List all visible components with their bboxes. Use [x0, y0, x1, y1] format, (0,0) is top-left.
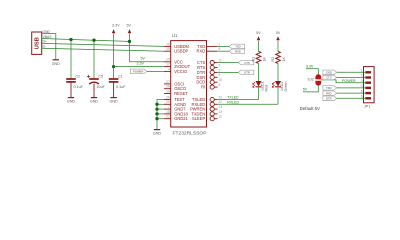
lead C2 to ground	[70, 82, 72, 97]
svg-text:GND: GND	[67, 100, 76, 104]
lead LED1 to wire	[258, 87, 260, 100]
net flag CTS	[238, 60, 254, 64]
svg-text:5V: 5V	[256, 31, 261, 35]
wire RXD	[217, 50, 229, 52]
junction GND21	[155, 117, 158, 120]
svg-text:R1: R1	[252, 57, 256, 62]
ground (C1)	[110, 97, 116, 99]
svg-text:23: 23	[218, 95, 222, 99]
svg-text:10: 10	[218, 78, 222, 82]
svg-text:3.3V: 3.3V	[306, 64, 314, 68]
svg-text:SLEEP: SLEEP	[192, 116, 205, 121]
IC U1 FT232RLSSOP	[171, 41, 207, 127]
svg-text:GND: GND	[52, 62, 61, 66]
svg-text:17: 17	[166, 63, 170, 67]
svg-text:DTR: DTR	[326, 96, 332, 100]
pin RI (6)	[210, 85, 214, 89]
svg-text:3: 3	[218, 63, 220, 67]
JP1 pad pin 1	[365, 71, 371, 73]
svg-text:5: 5	[361, 89, 363, 93]
LED LED2 (Green)	[275, 81, 281, 87]
svg-text:U1: U1	[172, 33, 178, 38]
svg-text:1K: 1K	[262, 57, 266, 62]
pin TXLED (23)	[210, 97, 214, 101]
svg-text:TXD: TXD	[235, 45, 240, 49]
wire RXD to JP1 pin 5	[337, 92, 366, 94]
wire GND18	[157, 113, 164, 115]
svg-text:POWER: POWER	[133, 69, 143, 73]
svg-text:RXD: RXD	[235, 49, 241, 53]
pin GND18 (18)	[164, 113, 171, 115]
junction 3.3V/C1	[112, 65, 115, 68]
wire 5V to R1	[258, 41, 260, 52]
svg-text:19: 19	[166, 89, 170, 93]
svg-text:0.1uF: 0.1uF	[116, 85, 126, 89]
svg-text:1: 1	[361, 69, 363, 73]
pin RTS (3)	[210, 65, 214, 69]
svg-text:14: 14	[218, 110, 222, 114]
wire 5V to VCC pin	[130, 61, 165, 63]
wire GND to JP1 pin 1	[337, 71, 366, 73]
pin GND21 (21)	[164, 118, 171, 120]
svg-text:4: 4	[361, 84, 363, 88]
svg-text:RXLED: RXLED	[227, 100, 239, 104]
svg-text:20: 20	[166, 58, 170, 62]
svg-text:5: 5	[218, 47, 220, 51]
svg-text:R2: R2	[271, 57, 275, 62]
net flag TXD	[229, 44, 245, 48]
wire VBUS 5V rail	[42, 39, 130, 42]
resistor R1	[256, 51, 261, 63]
svg-text:USB: USB	[35, 37, 41, 49]
svg-text:12: 12	[218, 115, 222, 119]
svg-text:CTS: CTS	[244, 61, 250, 65]
svg-text:11: 11	[218, 59, 222, 63]
wire GND7	[157, 108, 164, 110]
svg-text:Default 5V: Default 5V	[300, 106, 320, 111]
connector USB	[32, 32, 42, 54]
pin USBDP (15)	[164, 50, 171, 52]
svg-text:4: 4	[168, 67, 170, 71]
pin RXLED (22)	[210, 102, 214, 106]
svg-text:13: 13	[218, 105, 222, 109]
pin OSCI (27)	[164, 83, 171, 85]
svg-text:GND: GND	[326, 70, 332, 74]
junction GND7	[155, 107, 158, 110]
net flag GND	[323, 70, 337, 74]
svg-text:FT232RLSSOP: FT232RLSSOP	[173, 131, 207, 137]
pin PWREN (13)	[210, 107, 214, 111]
svg-text:SJ2: SJ2	[308, 78, 314, 82]
pin SLEEP (12)	[210, 117, 214, 121]
wire R1 to LED1	[258, 63, 260, 81]
svg-text:RXD: RXD	[326, 91, 332, 95]
ground (IC)	[154, 129, 160, 131]
wire 5V to SJ2	[303, 86, 318, 92]
pin OSCO (28)	[164, 88, 171, 90]
net flag TXD	[323, 86, 337, 90]
svg-text:5V: 5V	[126, 24, 131, 28]
wire 3.3V stem to C1	[113, 34, 115, 79]
svg-text:JP1: JP1	[364, 105, 371, 109]
wire DTR to JP1 pin 6	[337, 97, 366, 99]
wire TXD to JP1 pin 4	[337, 87, 366, 89]
wire AGND	[157, 103, 164, 105]
svg-text:VCCIO: VCCIO	[174, 69, 187, 74]
JP1 pad pin 2	[365, 76, 371, 78]
svg-text:3: 3	[361, 79, 363, 83]
pin VCC (20)	[164, 61, 171, 63]
junction VBUS/C5	[92, 39, 95, 42]
wire D+ to USBDM	[42, 43, 164, 46]
svg-text:26: 26	[166, 95, 170, 99]
solder jumper SJ2	[315, 74, 321, 79]
net flag RXD	[323, 91, 337, 95]
pin DTR (2)	[210, 70, 214, 74]
svg-text:9: 9	[218, 73, 220, 77]
svg-text:CTS: CTS	[326, 76, 332, 80]
svg-text:C1: C1	[118, 74, 123, 78]
wire POWER to VCCIO	[147, 70, 164, 72]
lead LED2 to wire	[277, 87, 279, 105]
pin VCCIO (4)	[164, 70, 171, 72]
svg-text:RI: RI	[201, 85, 205, 90]
pin 3V3OUT (17)	[164, 66, 171, 68]
svg-text:7: 7	[168, 105, 170, 109]
pin AGND (25)	[164, 103, 171, 105]
pin DSR (9)	[210, 75, 214, 79]
junction 5V/VBUS	[128, 40, 131, 43]
JP1 pad pin 3	[365, 82, 371, 84]
svg-text:GND21: GND21	[174, 116, 188, 121]
wire SJ2 POWER to JP1 pin 3	[321, 80, 365, 83]
ground (C2)	[68, 97, 74, 99]
svg-text:1K: 1K	[282, 57, 286, 62]
wire CTS to JP1 pin 2	[337, 77, 366, 79]
svg-text:6: 6	[361, 95, 363, 99]
svg-text:21: 21	[166, 115, 170, 119]
svg-text:15: 15	[166, 47, 170, 51]
svg-text:Red: Red	[264, 85, 268, 92]
wire VBUS to C2	[70, 40, 72, 80]
wire D- to USBDP	[42, 48, 164, 51]
svg-text:5V: 5V	[141, 56, 146, 60]
svg-text:6: 6	[218, 83, 220, 87]
wire R2 to LED2	[277, 63, 279, 81]
wire DTR	[218, 71, 239, 73]
svg-text:10uF: 10uF	[97, 85, 106, 89]
connector JP1	[364, 67, 375, 103]
wire TEST ground bus	[157, 100, 164, 130]
svg-text:C5: C5	[98, 74, 103, 78]
wire CTS	[218, 62, 239, 64]
svg-text:27: 27	[166, 80, 170, 84]
pin RXD (5)	[207, 50, 218, 52]
svg-text:C2: C2	[75, 74, 80, 78]
wire 5V to R2	[277, 41, 279, 52]
wire GND21	[157, 118, 164, 120]
pin GND7 (7)	[164, 108, 171, 110]
svg-text:5V: 5V	[276, 31, 281, 35]
capacitor C2	[66, 78, 76, 80]
svg-text:DTR: DTR	[244, 71, 250, 75]
wire RXLED to LED2	[218, 103, 278, 105]
svg-text:0.1uF: 0.1uF	[74, 85, 84, 89]
svg-text:GND: GND	[153, 132, 162, 136]
svg-text:RESET: RESET	[174, 91, 188, 96]
junction VBUS/C2	[69, 38, 72, 41]
JP1 pad pin 5	[365, 92, 371, 94]
pin RESET (19)	[164, 93, 171, 95]
svg-text:5V: 5V	[303, 88, 308, 92]
svg-text:2: 2	[218, 68, 220, 72]
svg-text:TXLED: TXLED	[227, 96, 239, 100]
resistor R2	[276, 51, 281, 63]
svg-text:GND: GND	[109, 100, 118, 104]
net flag RXD	[229, 49, 245, 53]
net flag CTS	[323, 75, 337, 79]
svg-text:2: 2	[361, 74, 363, 78]
wire 3.3V to 3V3OUT pin	[114, 66, 164, 68]
pin TXDEN (14)	[210, 112, 214, 116]
wire 3.3V to SJ2	[306, 69, 318, 75]
svg-text:TXD: TXD	[326, 86, 331, 90]
wire TXD	[217, 45, 229, 47]
net flag DTR	[238, 70, 254, 74]
ground (USB)	[53, 59, 59, 61]
lead C1 to ground	[113, 82, 115, 97]
pin TXD (1)	[207, 45, 218, 47]
svg-text:22: 22	[218, 100, 222, 104]
wire VBUS to C5	[93, 40, 95, 79]
svg-text:25: 25	[166, 100, 170, 104]
net flag DTR	[323, 96, 337, 100]
svg-text:Green: Green	[284, 82, 288, 92]
svg-text:18: 18	[166, 110, 170, 114]
pin TEST (26)	[164, 99, 171, 101]
capacitor C5	[89, 78, 99, 80]
JP1 pad pin 6	[365, 97, 371, 99]
wire 5V stem	[129, 34, 131, 62]
ground (C5)	[91, 97, 97, 99]
junction GND18	[155, 112, 158, 115]
svg-text:GND: GND	[90, 100, 99, 104]
svg-text:28: 28	[166, 85, 170, 89]
pin CTS (11)	[210, 61, 214, 65]
wire TXLED to LED1	[218, 99, 259, 101]
junction AGND	[155, 103, 158, 106]
lead C5 to ground	[93, 84, 95, 98]
wire USB GND to ground	[42, 34, 56, 60]
svg-text:16: 16	[166, 42, 170, 46]
svg-text:RXD: RXD	[197, 49, 206, 54]
JP1 pad pin 4	[365, 87, 371, 89]
capacitor C1	[109, 78, 119, 80]
pin USBDM (16)	[164, 45, 171, 47]
svg-text:1: 1	[218, 42, 220, 46]
svg-text:POWER: POWER	[342, 79, 356, 83]
svg-text:USBDP: USBDP	[174, 49, 188, 54]
LED LED1 (Red)	[256, 81, 262, 87]
svg-text:3.3V: 3.3V	[112, 24, 120, 28]
pin DCD (10)	[210, 80, 214, 84]
net flag POWER	[130, 69, 147, 74]
